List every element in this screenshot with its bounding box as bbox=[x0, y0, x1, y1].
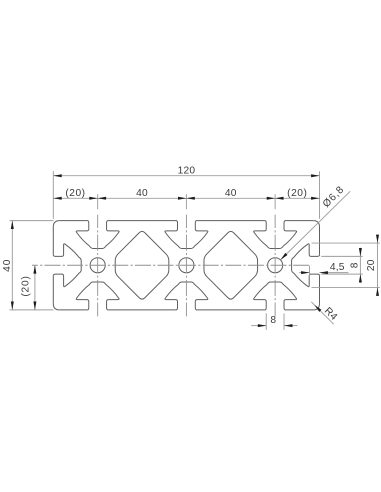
extension line hole2 center (top) bbox=[185, 194, 187, 209]
extension line slot wing top (right) bbox=[312, 242, 380, 244]
arrowhead leader 6,8 bbox=[280, 253, 287, 260]
dimension line 120 bbox=[53, 175, 319, 177]
top slot T-groove at x=20 bbox=[76, 221, 119, 249]
svg-text:20: 20 bbox=[366, 259, 377, 271]
bottom slot T-groove at x=60 bbox=[165, 282, 208, 310]
extension line slot wing bottom (right) bbox=[312, 286, 380, 288]
vertical centerline of hole 2 bbox=[185, 215, 187, 317]
vertical centerline of hole 3 bbox=[274, 215, 276, 317]
arrowheads dim 20 right bbox=[376, 235, 379, 296]
svg-text:(20): (20) bbox=[65, 188, 85, 199]
profile outer contour (120x40 extrusion) bbox=[53, 221, 319, 310]
arrowhead leader R4 bbox=[314, 305, 321, 312]
leader line R4 bbox=[311, 302, 333, 324]
leader line diameter 6,8 bbox=[280, 191, 350, 260]
dimension line 4,5 bbox=[299, 272, 309, 274]
svg-text:(20): (20) bbox=[20, 275, 31, 296]
svg-text:8: 8 bbox=[270, 315, 276, 326]
svg-text:Ø6,8: Ø6,8 bbox=[321, 184, 347, 210]
extension line profile top (left) bbox=[10, 220, 54, 222]
arrowheads dimension 120 bbox=[53, 174, 319, 177]
extension line hole3 center (top) bbox=[274, 194, 276, 209]
horizontal centerline through holes bbox=[32, 264, 312, 266]
extension line bottom slot lip right bbox=[283, 313, 285, 330]
core bore hole 3 (d 6.8) bbox=[268, 258, 283, 273]
dimension line 8 vertical right bbox=[359, 248, 361, 283]
arrowheads dim 4,5 bbox=[301, 271, 328, 274]
arrowheads dim 8 right bbox=[359, 248, 362, 283]
svg-text:40: 40 bbox=[136, 188, 148, 199]
extension line right end (top) bbox=[319, 171, 321, 219]
svg-text:R4: R4 bbox=[322, 306, 339, 323]
arrowheads dim (20) vertical bbox=[33, 265, 36, 310]
svg-text:40: 40 bbox=[225, 188, 237, 199]
extension line left end (top) bbox=[52, 171, 54, 219]
extension line slot lip top (right) bbox=[321, 255, 362, 257]
svg-text:40: 40 bbox=[2, 259, 13, 272]
large hexagonal cavity at x=40 bbox=[115, 231, 169, 299]
extension line slot ceiling depth (4,5) bbox=[309, 266, 311, 278]
dimension line (20)/40/40/(20) bbox=[53, 197, 319, 199]
dimension line 20 vertical right bbox=[377, 236, 379, 295]
vertical centerline of hole 1 bbox=[97, 215, 99, 317]
top slot T-groove at x=100 bbox=[254, 221, 297, 249]
right end slot T-groove bbox=[292, 244, 320, 287]
extension line bottom slot lip left bbox=[265, 313, 267, 330]
extension line slot lip bottom (right) bbox=[321, 273, 362, 275]
dimension line 8 bottom bbox=[251, 325, 266, 327]
svg-text:120: 120 bbox=[178, 165, 196, 176]
core bore hole 1 (d 6.8) bbox=[90, 258, 105, 273]
extension line profile bottom (left) bbox=[10, 309, 54, 311]
arrowheads row2 bbox=[53, 197, 319, 200]
bottom slot T-groove at x=20 bbox=[76, 282, 119, 310]
large hexagonal cavity at x=80 bbox=[204, 231, 258, 299]
dimension line 40 vertical bbox=[11, 221, 13, 310]
arrowheads dim 40 bbox=[11, 221, 14, 310]
svg-text:(20): (20) bbox=[287, 188, 307, 199]
dimension line (20) vertical bbox=[34, 265, 36, 310]
svg-text:8: 8 bbox=[350, 262, 361, 268]
svg-text:4,5: 4,5 bbox=[330, 262, 345, 273]
top slot T-groove at x=60 bbox=[165, 221, 208, 249]
left end slot T-groove bbox=[53, 244, 81, 287]
bottom slot T-groove at x=100 bbox=[254, 282, 297, 310]
core bore hole 2 (d 6.8) bbox=[179, 258, 194, 273]
arrowheads dim 8 bottom bbox=[258, 324, 293, 327]
extension line hole1 center (top) bbox=[97, 194, 99, 209]
